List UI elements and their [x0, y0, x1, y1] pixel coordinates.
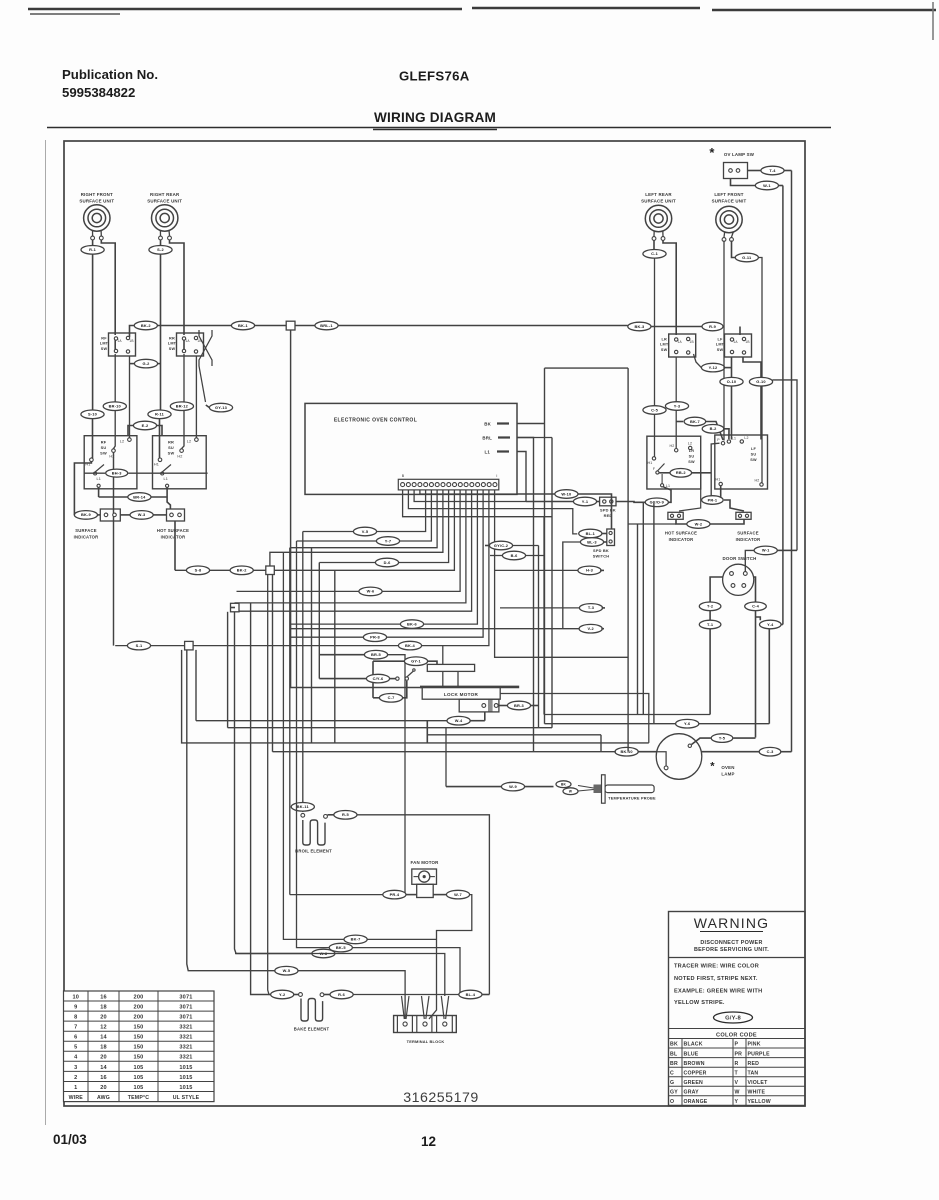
wire RB-2 right	[692, 472, 712, 474]
wire door right	[754, 577, 756, 602]
wire Y-12 to O-10 line	[725, 367, 732, 369]
svg-text:12: 12	[421, 1134, 436, 1149]
svg-text:LMT: LMT	[660, 343, 669, 347]
RR SU SW box	[153, 436, 207, 489]
svg-text:RIGHT REAR: RIGHT REAR	[150, 192, 180, 197]
svg-text:C-5: C-5	[651, 407, 659, 412]
wire LR left lead down	[654, 258, 656, 457]
wire label V-2	[579, 624, 602, 633]
svg-text:Y-4: Y-4	[767, 622, 774, 627]
wire block lead 3b	[446, 996, 449, 1019]
wire EOC drop t17	[495, 490, 628, 657]
wire H1 to BK-9 ell	[74, 462, 91, 515]
svg-text:105: 105	[134, 1065, 144, 1071]
wire RR switch arm	[162, 465, 171, 473]
wire label S-1 mesh	[127, 641, 150, 650]
wire label BK probe	[556, 781, 571, 788]
wire label BH-3	[106, 469, 128, 477]
wire label BK-3 bus	[628, 322, 651, 331]
svg-text:SWITCH: SWITCH	[593, 554, 610, 559]
svg-text:G-11: G-11	[742, 255, 752, 260]
wire BK exit stub	[517, 423, 545, 425]
wire label Y-7 mesh	[376, 537, 399, 546]
wire label V-5 mesh	[353, 527, 376, 536]
wire label BK-1 bus	[231, 321, 254, 330]
wire label GY-1	[404, 657, 427, 666]
svg-text:H1: H1	[154, 463, 159, 467]
wire C-7 to contact	[403, 681, 407, 698]
svg-text:VIOLET: VIOLET	[748, 1080, 769, 1086]
wire W-5 right	[298, 971, 405, 1019]
wire X cross 2	[199, 330, 212, 402]
svg-text:W: W	[569, 790, 572, 794]
wire label PR-4	[383, 890, 406, 899]
wire B6 right	[526, 555, 544, 557]
wire OV LAMP SW to W-1	[731, 179, 756, 186]
wire x653 down	[653, 502, 655, 723]
svg-text:L2: L2	[120, 440, 125, 444]
svg-text:TAN: TAN	[748, 1070, 759, 1076]
svg-text:RB-2: RB-2	[676, 470, 687, 475]
svg-text:O: O	[670, 1099, 674, 1105]
svg-text:BR-12: BR-12	[176, 404, 189, 409]
junction square S3	[231, 603, 240, 612]
wire label H-3	[578, 566, 601, 575]
wire C-7 left	[373, 697, 379, 699]
wire RF switch arm	[95, 465, 104, 473]
svg-text:W-10: W-10	[561, 491, 571, 496]
svg-text:BK-2: BK-2	[141, 323, 152, 328]
svg-text:150: 150	[134, 1055, 144, 1061]
svg-text:B-6: B-6	[511, 553, 519, 558]
wire G-10 down	[760, 386, 762, 440]
wire probe diag2	[578, 790, 594, 792]
svg-text:L1: L1	[164, 477, 169, 481]
svg-text:BR-10: BR-10	[109, 404, 121, 409]
wire label T-1 door	[699, 620, 721, 629]
wire RR to H1	[159, 419, 162, 458]
fan motor icon	[412, 869, 437, 884]
svg-text:3071: 3071	[179, 994, 192, 1000]
svg-text:TRACER WIRE: WIRE COLOR: TRACER WIRE: WIRE COLOR	[674, 964, 759, 970]
wire EOC drop 9	[235, 490, 472, 611]
svg-text:BK-6: BK-6	[407, 621, 418, 626]
wire RF LMT to H2	[114, 354, 116, 449]
wire label BK-6 mesh	[400, 620, 423, 629]
wire S2 bundle b to lamp line	[272, 575, 274, 752]
wire label O-10	[720, 377, 743, 386]
svg-text:F: F	[653, 467, 655, 471]
svg-text:BK-3: BK-3	[634, 324, 645, 329]
wire x637 down	[637, 524, 639, 715]
wire x427 down	[426, 721, 428, 743]
scan artifact right top corner	[932, 2, 934, 40]
svg-text:RR: RR	[168, 440, 174, 445]
svg-text:I: I	[496, 474, 497, 478]
svg-text:LEFT REAR: LEFT REAR	[645, 192, 672, 197]
wire label G-2	[134, 359, 157, 368]
svg-text:Y-6: Y-6	[684, 721, 691, 726]
svg-text:L1: L1	[732, 437, 736, 441]
svg-text:SURFACE UNIT: SURFACE UNIT	[147, 199, 182, 204]
svg-text:LMT: LMT	[168, 342, 177, 346]
wire W-1 to right vert	[777, 549, 791, 551]
svg-text:GY/O-9: GY/O-9	[650, 500, 665, 505]
svg-text:ELECTRONIC OVEN CONTROL: ELECTRONIC OVEN CONTROL	[334, 418, 417, 424]
limit switch R RR	[177, 333, 204, 356]
svg-text:150: 150	[134, 1025, 144, 1031]
svg-text:AWG: AWG	[97, 1095, 110, 1101]
wire S4 bundle b to long y743	[182, 650, 649, 743]
svg-text:S-8: S-8	[195, 568, 202, 573]
svg-text:H2: H2	[670, 444, 675, 448]
wire W-10 line	[517, 493, 555, 495]
svg-text:3321: 3321	[179, 1035, 192, 1041]
wire label BL-1	[579, 529, 602, 538]
wire label E-2	[133, 421, 156, 430]
svg-text:GY/C-2: GY/C-2	[494, 543, 509, 548]
wire fan tick left	[414, 876, 419, 878]
wire W-2 to SI	[710, 519, 744, 524]
wire label Y-4 door	[760, 620, 782, 629]
wire vert x334	[334, 570, 336, 743]
svg-text:R-11: R-11	[155, 412, 165, 417]
svg-text:SW: SW	[100, 451, 107, 456]
wire RR right lead	[170, 240, 185, 335]
wire GYC2 right	[513, 545, 539, 547]
svg-text:BL-4: BL-4	[466, 992, 476, 997]
wire SPD sw to BL-1	[602, 533, 607, 535]
wire RR L1 down	[167, 488, 170, 510]
svg-text:NOTED FIRST, STRIPE NEXT.: NOTED FIRST, STRIPE NEXT.	[674, 976, 758, 982]
wire lock loop	[500, 694, 649, 743]
wire label T-5 lamp	[711, 734, 733, 743]
wire switch bus y473 b	[128, 472, 207, 474]
wire hot indicator down	[174, 521, 176, 570]
wire label T-2 door	[699, 602, 721, 611]
wire label W-3	[130, 511, 153, 520]
wire label W-7	[446, 890, 469, 899]
wire BK-5 right	[352, 948, 460, 995]
wire EOC drop 6	[175, 490, 454, 570]
wire label Y-12	[701, 363, 724, 372]
wire label BR-3	[507, 701, 530, 710]
wire E-2 left	[128, 426, 133, 436]
svg-text:O-10: O-10	[727, 379, 736, 384]
svg-text:18: 18	[100, 1045, 107, 1051]
wire label R-6	[330, 990, 353, 999]
wire W-3 to hot indicator	[153, 514, 166, 516]
wire BRL dash	[498, 436, 510, 438]
wire label GY-13	[209, 403, 232, 412]
svg-text:20: 20	[100, 1055, 107, 1061]
svg-text:H2: H2	[177, 455, 182, 459]
wire lamp left	[637, 751, 656, 753]
wire long y723	[545, 723, 770, 725]
surface unit coil LEFT FRONT	[716, 206, 742, 238]
svg-text:SPD BK: SPD BK	[593, 548, 609, 553]
svg-text:Y: Y	[735, 1099, 739, 1105]
svg-text:SW: SW	[750, 458, 757, 462]
wire R-5 loop	[357, 815, 489, 995]
svg-text:P: P	[717, 438, 720, 442]
svg-text:OVEN: OVEN	[721, 765, 734, 770]
svg-text:COLOR CODE: COLOR CODE	[716, 1032, 757, 1038]
svg-text:BH-3: BH-3	[112, 470, 123, 475]
wire door left	[710, 577, 723, 602]
wire label PR-1	[702, 496, 724, 505]
warning box	[669, 912, 806, 1107]
wire RR LMT right col to L2	[195, 356, 197, 438]
svg-text:BK-10: BK-10	[620, 749, 632, 754]
svg-text:BK-7: BK-7	[351, 937, 361, 942]
svg-text:2: 2	[74, 1075, 77, 1081]
svg-text:BK: BK	[484, 422, 491, 427]
svg-text:BRL-1: BRL-1	[320, 323, 333, 328]
wire LF right lead	[732, 241, 736, 258]
svg-text:BK-7: BK-7	[690, 419, 700, 424]
wire label R-9 bus	[702, 322, 723, 331]
wire label BL-4	[459, 990, 482, 999]
svg-text:W-1: W-1	[762, 548, 770, 553]
bake element symbol	[301, 999, 323, 1022]
svg-text:INDICATOR: INDICATOR	[736, 537, 761, 542]
surface unit coil RIGHT REAR	[152, 205, 178, 237]
svg-text:ORANGE: ORANGE	[684, 1099, 708, 1105]
wire label BK-2 mesh	[230, 566, 253, 575]
svg-text:RF: RF	[101, 337, 107, 341]
wire Y-4 to W1 vert	[781, 624, 783, 626]
svg-text:GLEFS76A: GLEFS76A	[399, 69, 470, 84]
svg-text:16: 16	[100, 994, 107, 1000]
svg-text:SURFACE: SURFACE	[737, 531, 758, 536]
wire EOC drop t1	[403, 490, 552, 517]
svg-text:R-5: R-5	[342, 812, 350, 817]
svg-text:BK: BK	[670, 1042, 678, 1048]
svg-text:20: 20	[100, 1015, 107, 1021]
svg-text:R: R	[735, 1061, 739, 1067]
svg-text:14: 14	[100, 1065, 107, 1071]
svg-text:7: 7	[74, 1025, 77, 1031]
wire vert x296 to BK-5	[297, 541, 330, 948]
wire door to W-1	[745, 550, 754, 571]
svg-text:BROIL ELEMENT: BROIL ELEMENT	[295, 849, 332, 854]
wire RF left lead down	[92, 254, 94, 411]
wire label C-3 lamp	[759, 747, 781, 756]
svg-text:UL STYLE: UL STYLE	[173, 1095, 200, 1101]
wire lock stem up	[442, 646, 444, 665]
LF SU SW box	[715, 435, 768, 489]
wire H3 line	[495, 569, 579, 571]
svg-text:C/Y-6: C/Y-6	[373, 676, 384, 681]
svg-text:Y-3: Y-3	[674, 403, 681, 408]
svg-text:L1: L1	[484, 450, 490, 455]
wire label C-5	[643, 406, 666, 415]
wire vert x302	[302, 532, 304, 813]
svg-text:BK: BK	[561, 783, 567, 787]
wire branch to Y-4	[756, 617, 761, 620]
SPD BK SWITCH box	[607, 529, 615, 546]
wire label C/Y-6	[366, 674, 389, 683]
svg-text:10: 10	[72, 994, 79, 1000]
wire label BR-12	[170, 402, 193, 411]
wire BR-5 right down	[388, 655, 405, 895]
wire CY-6 right	[390, 678, 396, 680]
svg-text:LF: LF	[717, 338, 723, 342]
svg-text:BK-9: BK-9	[81, 512, 92, 517]
wire x628 down	[627, 368, 629, 752]
svg-text:EXAMPLE: GREEN WIRE WITH: EXAMPLE: GREEN WIRE WITH	[674, 989, 762, 995]
svg-text:BK-4: BK-4	[405, 643, 416, 648]
wire RR LMT to H2	[182, 354, 184, 449]
wire label G-11	[735, 253, 758, 262]
wire x769 down	[768, 629, 770, 724]
wire indicator to W-3	[120, 514, 130, 516]
wire EOC drop t3	[414, 490, 526, 502]
svg-text:E-2: E-2	[142, 423, 149, 428]
wire through RR LMT	[183, 339, 185, 350]
wire EOC drop 11	[291, 490, 484, 637]
G/Y-8 example ellipse	[714, 1012, 753, 1023]
wire LR LMT down	[675, 357, 677, 449]
surface unit coil LEFT REAR	[645, 205, 671, 237]
svg-text:HOT SURFACE: HOT SURFACE	[157, 528, 189, 533]
wire T-4 stub	[784, 170, 792, 172]
svg-text:1015: 1015	[179, 1065, 192, 1071]
junction square S1	[286, 321, 295, 330]
wire label W-4	[447, 716, 470, 725]
svg-text:L2: L2	[744, 436, 748, 440]
svg-text:C-3: C-3	[767, 749, 775, 754]
wire BR-14 right	[151, 496, 167, 498]
svg-text:DISCONNECT POWER: DISCONNECT POWER	[700, 940, 762, 946]
svg-text:*: *	[709, 145, 715, 160]
svg-text:C-7: C-7	[388, 695, 395, 700]
svg-text:H2: H2	[755, 479, 760, 483]
wire G-2 right link	[158, 363, 161, 365]
svg-text:1A: 1A	[678, 340, 683, 344]
wire lamp internal lead	[657, 752, 666, 766]
svg-text:SURFACE UNIT: SURFACE UNIT	[79, 199, 114, 204]
wire long y727	[228, 727, 552, 729]
svg-text:V-5: V-5	[362, 529, 369, 534]
svg-text:BK-11: BK-11	[297, 804, 310, 809]
svg-text:3: 3	[74, 1065, 77, 1071]
svg-text:SPD BK: SPD BK	[600, 508, 616, 513]
wire E-2 right	[157, 426, 162, 436]
wire label BRL-1 bus	[315, 321, 338, 330]
svg-text:FAN MOTOR: FAN MOTOR	[410, 860, 439, 865]
svg-text:BLACK: BLACK	[684, 1042, 703, 1048]
wire label G-10	[749, 377, 772, 386]
svg-text:SW: SW	[101, 347, 108, 351]
wire B-2 diag	[724, 429, 729, 439]
wire label S-10	[81, 410, 104, 419]
RF SU SW box	[84, 436, 137, 489]
wire PR-4 to fan	[406, 894, 417, 896]
junction square S2	[266, 566, 275, 575]
wire RR left lead down	[160, 254, 162, 411]
svg-text:RR: RR	[169, 337, 175, 341]
svg-text:G: G	[670, 1080, 674, 1086]
svg-text:L1: L1	[97, 477, 102, 481]
wire LR arm	[657, 464, 664, 472]
wire to bake	[298, 994, 301, 996]
wire LF right lead down	[758, 258, 762, 483]
wire LR lead	[653, 241, 655, 251]
svg-text:V: V	[735, 1080, 739, 1086]
svg-text:T-5: T-5	[719, 735, 726, 740]
wire EOC drop 2	[297, 490, 432, 541]
svg-text:INDICATOR: INDICATOR	[669, 537, 694, 542]
svg-text:200: 200	[134, 1004, 144, 1010]
wire LF left lead down	[723, 241, 725, 441]
wire label Y-3	[665, 402, 688, 411]
wire BK-7b left	[676, 421, 683, 423]
svg-text:150: 150	[134, 1045, 144, 1051]
svg-text:WIRE: WIRE	[69, 1095, 84, 1101]
svg-text:SW: SW	[661, 348, 668, 352]
svg-text:W-1: W-1	[763, 183, 771, 188]
wire label W-5	[275, 966, 298, 975]
svg-text:C-4: C-4	[752, 604, 760, 609]
svg-text:GY-1: GY-1	[411, 659, 421, 664]
color code table	[669, 1047, 806, 1049]
surface indicator lamp left	[100, 509, 120, 521]
wire RF right lead	[101, 240, 115, 335]
svg-text:L2: L2	[688, 442, 692, 446]
wire B6 left	[490, 555, 502, 557]
svg-text:105: 105	[134, 1085, 144, 1091]
svg-text:G/Y-8: G/Y-8	[725, 1016, 741, 1022]
svg-text:S-1: S-1	[136, 643, 143, 648]
wire label BK-10 lamp	[615, 747, 638, 756]
wire LR right lead	[663, 241, 676, 327]
wire S3 second line	[227, 612, 229, 728]
svg-text:5995384822: 5995384822	[62, 85, 135, 100]
wire y628 line	[290, 628, 580, 630]
wire OV LAMP SW to T-4	[748, 170, 762, 172]
wire LR LMT to Y-12	[694, 354, 702, 368]
svg-text:BR-5: BR-5	[371, 652, 382, 657]
wire EOC drop 1	[303, 490, 426, 532]
wire label BL-3	[580, 538, 603, 547]
wire y368 link	[545, 367, 629, 369]
svg-text:GY: GY	[670, 1089, 678, 1095]
wire EOC drop 4	[283, 490, 443, 552]
wire label GY/C-2	[489, 541, 512, 550]
wire BK-7b diag	[706, 422, 723, 441]
svg-text:R-9: R-9	[709, 324, 717, 329]
svg-text:SURFACE UNIT: SURFACE UNIT	[641, 199, 676, 204]
wire label W probe	[563, 788, 578, 795]
wire x552 vertical	[551, 438, 553, 728]
svg-text:WIRING DIAGRAM: WIRING DIAGRAM	[374, 110, 496, 125]
svg-text:H-3: H-3	[586, 568, 594, 573]
wire broil to R-5	[328, 814, 334, 816]
wire label BK-4 mesh	[398, 641, 421, 650]
svg-text:C: C	[670, 1070, 674, 1076]
wire lamp left long	[273, 751, 616, 753]
svg-text:316255179: 316255179	[403, 1090, 479, 1106]
SPD BK RED switch box	[600, 497, 616, 506]
wire W-1 stub	[779, 185, 783, 187]
LR SU SW box	[647, 436, 701, 489]
svg-text:SU: SU	[101, 445, 107, 450]
wire label GY/O-9	[645, 498, 668, 507]
wire GYO to LR L1	[664, 487, 672, 502]
wire label BK-5	[329, 943, 352, 952]
